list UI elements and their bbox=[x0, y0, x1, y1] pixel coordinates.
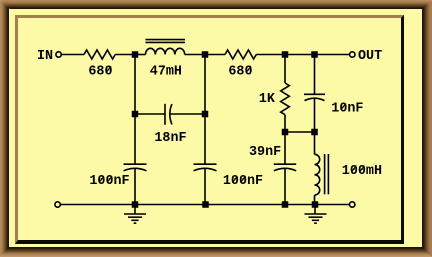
wire bottom rail: node I to node J bbox=[135, 204, 206, 206]
wire L1 to node B bbox=[185, 54, 205, 56]
node B junction bbox=[202, 51, 209, 58]
wire C4 to bottom rail bbox=[284, 168, 286, 204]
wire R1 to node A bbox=[115, 54, 135, 56]
resistor R1 680 bbox=[84, 50, 115, 59]
node J junction bbox=[202, 201, 209, 208]
svg-text:680: 680 bbox=[88, 64, 112, 79]
node F junction bbox=[202, 111, 209, 118]
value label 680 (R2) bbox=[228, 64, 252, 79]
value label 100nF (C2) bbox=[89, 174, 129, 189]
wire node D to OUT terminal bbox=[315, 54, 350, 56]
core of L2 (two lines) bbox=[324, 154, 326, 194]
wire L2 to bottom rail bbox=[314, 195, 316, 204]
svg-text:47mH: 47mH bbox=[150, 64, 182, 79]
wire node F down to C3 bbox=[204, 114, 206, 164]
wire node D down to C5 bbox=[314, 55, 316, 95]
wire node C to node D bbox=[285, 54, 315, 56]
capacitor C2 100nF bbox=[124, 163, 147, 165]
wire node C down to R3 bbox=[284, 55, 286, 84]
wire IN to R1 bbox=[61, 54, 84, 56]
wire node B down to node F bbox=[204, 55, 206, 115]
value label 100nF (C3) bbox=[223, 174, 263, 189]
capacitor C5 10nF bbox=[304, 93, 325, 95]
node A junction bbox=[132, 51, 139, 58]
wire C5 to node H bbox=[314, 98, 316, 132]
wire node H down to L2 bbox=[314, 132, 316, 154]
capacitor C4 39nF bbox=[274, 163, 296, 165]
frame molding left bbox=[0, 0, 9, 257]
resistor R2 680 bbox=[225, 50, 256, 59]
node D junction bbox=[311, 51, 318, 58]
wire bottom rail: node J to node K bbox=[206, 204, 286, 206]
wire node E down to C2 bbox=[134, 114, 136, 164]
svg-text:100nF: 100nF bbox=[223, 174, 263, 189]
frame molding bottom bbox=[0, 247, 432, 257]
svg-text:OUT: OUT bbox=[358, 49, 382, 64]
terminal bottom-right (open circle) bbox=[350, 202, 355, 207]
inductor L2 100mH (vertical) bbox=[315, 154, 320, 195]
frame molding top bbox=[0, 0, 432, 9]
capacitor C1 18nF bbox=[164, 104, 166, 125]
wire bottom rail: terminal to node I bbox=[60, 204, 135, 206]
node E junction bbox=[132, 111, 139, 118]
svg-text:680: 680 bbox=[228, 64, 252, 79]
ground symbol G1 bbox=[124, 205, 146, 224]
svg-text:100mH: 100mH bbox=[342, 164, 382, 179]
core of L1 (two lines) bbox=[146, 39, 186, 41]
terminal bottom-left (open circle) bbox=[55, 202, 60, 207]
node H junction bbox=[311, 129, 318, 136]
frame molding right bbox=[422, 0, 432, 257]
resistor R3 1K (vertical) bbox=[281, 83, 290, 115]
value label 680 (R1) bbox=[88, 64, 112, 79]
wire node G down to C4 bbox=[284, 132, 286, 164]
node K junction bbox=[282, 201, 289, 208]
wire R2 to node C bbox=[256, 54, 285, 56]
wire C2 to bottom rail bbox=[134, 168, 136, 204]
inductor L1 47mH bbox=[146, 48, 185, 54]
node C junction bbox=[282, 51, 289, 58]
terminal IN (open circle) bbox=[56, 52, 61, 57]
wire node G to node H bbox=[285, 131, 315, 133]
svg-text:100nF: 100nF bbox=[89, 174, 129, 189]
capacitor C3 100nF bbox=[194, 163, 217, 165]
wire node A down to node E bbox=[134, 55, 136, 115]
terminal OUT (open circle) bbox=[350, 52, 355, 57]
value label 10nF (C5) bbox=[331, 102, 363, 117]
wire node A to L1 bbox=[135, 54, 146, 56]
node I junction bbox=[132, 201, 139, 208]
wire node E to C1 bbox=[138, 113, 165, 115]
wire bottom rail: node K to node L bbox=[285, 204, 315, 206]
node L junction bbox=[312, 201, 319, 208]
wire C1 to node F bbox=[170, 113, 205, 115]
svg-text:39nF: 39nF bbox=[249, 145, 281, 160]
ground symbol G2 bbox=[305, 205, 327, 224]
node G junction bbox=[282, 129, 289, 136]
wire R3 to node G bbox=[284, 115, 286, 132]
svg-text:18nF: 18nF bbox=[154, 131, 186, 146]
svg-text:10nF: 10nF bbox=[331, 102, 363, 117]
svg-text:IN: IN bbox=[37, 49, 53, 64]
value label 100mH (L2) bbox=[342, 164, 382, 179]
wire node B to R2 bbox=[205, 54, 225, 56]
wire C3 to bottom rail bbox=[204, 168, 206, 204]
wire bottom rail: node L to bottom-right terminal bbox=[315, 204, 350, 206]
svg-text:1K: 1K bbox=[259, 92, 276, 107]
